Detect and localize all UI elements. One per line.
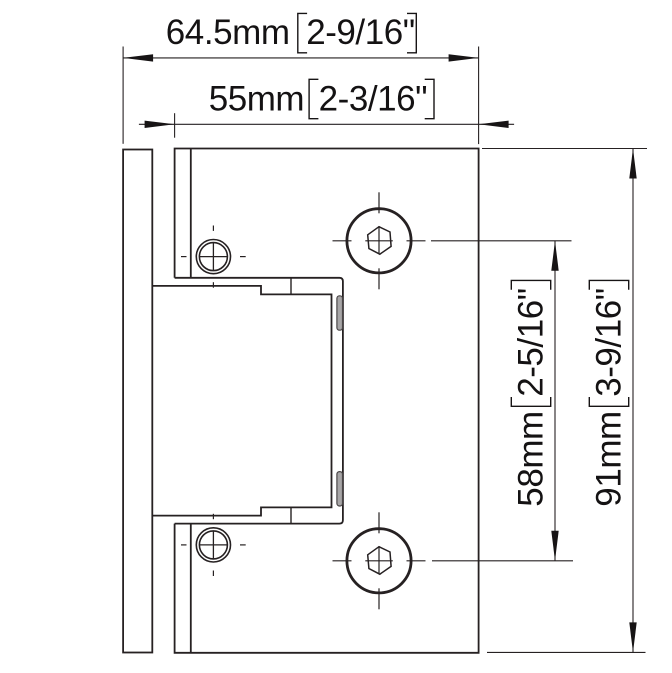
hex socket screw lower [333, 512, 426, 609]
dimension 55mm bracket left [309, 79, 318, 118]
dimension 58mm arrow top [551, 241, 558, 271]
dimension 91mm arrow top [629, 149, 636, 179]
dimension 91mm label group [589, 280, 628, 506]
dimension 91mm extension line bottom [487, 651, 646, 653]
svg-text:2-9/16": 2-9/16" [306, 13, 415, 52]
dimension 55mm line [139, 123, 514, 125]
dimension 91mm extension line top [482, 148, 647, 150]
dimension 58mm extension line top [431, 240, 572, 242]
dimension 64.5mm extension line left [122, 47, 124, 144]
jaw tick upper [290, 278, 292, 295]
dimension shared right extension line [478, 47, 480, 145]
svg-text:58mm: 58mm [511, 411, 550, 506]
jaw tick lower [290, 507, 292, 523]
dimension 58mm arrow bottom [551, 531, 558, 561]
body inner edge line lower [190, 524, 192, 653]
phillips screw lower [181, 514, 246, 576]
svg-text:2-3/16": 2-3/16" [319, 79, 428, 118]
dimension 55mm arrow left (outside) [145, 121, 175, 128]
body inner edge line upper [190, 149, 192, 278]
gasket bar lower [337, 472, 343, 506]
dimension 58mm label group [511, 280, 550, 506]
dimension 64.5mm arrow right [449, 54, 479, 61]
svg-text:91mm: 91mm [589, 411, 628, 506]
wall mount plate (edge view) [123, 150, 152, 653]
dimension 55mm arrow right (outside) [479, 121, 509, 128]
gasket bar upper [337, 296, 343, 330]
dimension 91mm arrow bottom [629, 622, 636, 652]
dimension 64.5mm bracket left [298, 13, 307, 52]
dimension 58mm extension line bottom [432, 560, 573, 562]
phillips screw upper [181, 226, 246, 288]
hinge body plate [175, 149, 479, 653]
svg-text:3-9/16": 3-9/16" [589, 288, 628, 397]
dimension 64.5mm bracket right [407, 13, 416, 52]
clamp block outline [175, 278, 343, 524]
dimension 58mm line [554, 241, 556, 561]
knuckle bridge and glass slot [152, 286, 331, 516]
svg-text:2-5/16": 2-5/16" [511, 288, 550, 397]
dimension 91mm line [632, 149, 634, 653]
svg-text:64.5mm: 64.5mm [166, 13, 290, 52]
svg-text:55mm: 55mm [209, 79, 304, 118]
dimension 55mm bracket right [425, 79, 434, 118]
dimension 64.5mm line [123, 57, 479, 59]
dimension 55mm extension line left [174, 113, 176, 138]
hex socket screw upper [333, 192, 426, 289]
dimension 64.5mm arrow left [123, 54, 153, 61]
